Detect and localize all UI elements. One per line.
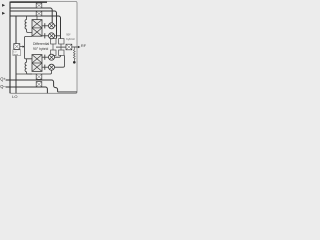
- wire M3 out up to hybrid: [55, 55, 61, 57]
- wire M2 out: [55, 35, 61, 37]
- coupling cap M4: [44, 65, 46, 70]
- hybrid output wire: [56, 46, 66, 48]
- wire T1 to M2: [42, 35, 49, 37]
- ground via dot: [73, 61, 76, 64]
- hybrid vertical link left: [52, 44, 54, 50]
- input arrow I+: [2, 4, 5, 7]
- wire pad P3 left: [16, 73, 36, 75]
- wire Q+: [6, 80, 58, 92]
- hybrid square TR: [59, 39, 64, 44]
- wire bottom overlay (double line): [58, 91, 77, 93]
- wire T1 to M1: [42, 25, 49, 27]
- wire (y=16) to vertical x=60.5: [10, 16, 61, 39]
- LO feed arrow: [20, 46, 23, 48]
- coil L2 (bottom balun winding): [25, 59, 32, 74]
- LO input pad: [14, 44, 20, 50]
- wire I+ top (thick overlay on frame top): [10, 1, 47, 3]
- svg-text:Q+: Q+: [0, 76, 6, 81]
- LO feed wire to top balun: [24, 36, 32, 46]
- RF out arrowhead: [78, 46, 80, 48]
- chip frame: [10, 2, 77, 94]
- LO input label box: [13, 50, 21, 56]
- wire I- (y=8): [10, 8, 52, 23]
- coil L1 (top balun winding): [25, 16, 32, 33]
- RF pad (bond pad): [66, 44, 72, 50]
- stub pad P2 to T1: [36, 16, 38, 20]
- input arrow I-: [2, 12, 5, 15]
- pad P2 (bond pad): [36, 11, 42, 16]
- resistor to ground (zigzag): [73, 47, 75, 61]
- wire (y=11) to vertical x=56.5: [10, 11, 57, 39]
- pad P4 (bond pad): [36, 82, 42, 87]
- wire M4 out up to hybrid: [55, 55, 65, 67]
- left vertical bus x=16: [15, 16, 17, 93]
- hybrid square TL: [51, 39, 56, 44]
- svg-text:RF: RF: [81, 43, 87, 48]
- coupling cap M3: [44, 55, 46, 60]
- pad P3 (bond pad): [36, 74, 42, 79]
- transformer T2 (box with crossed windings): [32, 55, 42, 72]
- wire T2 to M4: [42, 66, 49, 68]
- left vertical bus x=10: [9, 2, 11, 94]
- RF out wire: [72, 46, 78, 48]
- svg-text:90° hybrid: 90° hybrid: [33, 47, 48, 51]
- hybrid vertical link right: [60, 44, 62, 50]
- mixer M1: [49, 23, 55, 29]
- background: [0, 0, 87, 100]
- label: Differential 90 hybrid: [33, 42, 49, 51]
- svg-text:hybrid: hybrid: [66, 37, 75, 41]
- hybrid square BR: [59, 50, 64, 55]
- pad P1 (bond pad): [36, 3, 42, 8]
- svg-text:90°: 90°: [66, 32, 71, 36]
- transformer T1 (box with crossed windings): [32, 20, 42, 37]
- svg-text:LO: LO: [12, 94, 17, 99]
- coupling cap M1: [44, 23, 46, 28]
- LO feed wire to bottom balun: [24, 47, 32, 59]
- mixer M4: [49, 64, 55, 70]
- label 90 hybrid (output): [66, 32, 75, 41]
- mixer M3: [49, 54, 55, 60]
- wire T2 to M3: [42, 56, 49, 58]
- wire Q-: [6, 87, 48, 93]
- mixer M2: [49, 33, 55, 39]
- coupling cap M2: [44, 33, 46, 38]
- wire M1 out: [55, 25, 57, 27]
- svg-text:input: input: [14, 53, 19, 56]
- svg-text:Differential: Differential: [33, 42, 49, 46]
- hybrid square BL: [51, 50, 56, 55]
- wire M4 bottom to pad P3: [42, 70, 52, 74]
